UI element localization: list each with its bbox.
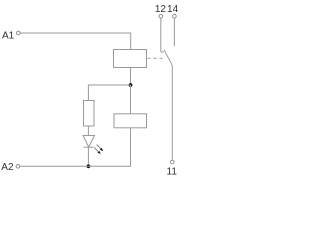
- terminal 14: [173, 14, 177, 18]
- LED emission arrow 1: [97, 145, 104, 152]
- terminal 11: [171, 160, 175, 164]
- wire resistor to LED: [87, 126, 89, 136]
- terminal A1: [17, 31, 21, 35]
- input block U1: [114, 50, 147, 68]
- terminal 12: [159, 14, 163, 18]
- wire coil to junction: [130, 68, 132, 86]
- svg-text:A1: A1: [2, 30, 15, 41]
- junction node: [129, 83, 133, 87]
- wire junction to resistor: [88, 85, 130, 101]
- wire A2 rail to relay coil: [20, 128, 130, 167]
- svg-text:A2: A2: [1, 162, 14, 173]
- LED D1: [83, 136, 95, 148]
- wire A1 to coil: [21, 33, 131, 50]
- dashed actuation link: [148, 57, 163, 59]
- svg-text:12: 12: [155, 4, 167, 15]
- wire contact 14 (NO): [173, 18, 175, 46]
- relay coil K1: [114, 114, 147, 128]
- contact seat tick 12: [161, 51, 164, 53]
- svg-text:14: 14: [167, 4, 179, 15]
- LED emission arrow 2: [94, 148, 101, 155]
- resistor R1: [84, 101, 95, 127]
- junction node on A2 rail: [87, 164, 91, 168]
- LED cathode bar: [84, 146, 94, 148]
- wire LED to A2 rail: [87, 147, 89, 166]
- svg-text:11: 11: [167, 166, 178, 177]
- wire junction to relay coil top: [130, 85, 132, 114]
- wire contact 12 (NC): [160, 18, 162, 52]
- terminal A2: [16, 165, 20, 169]
- contact arm and wire to 11: [164, 50, 172, 160]
